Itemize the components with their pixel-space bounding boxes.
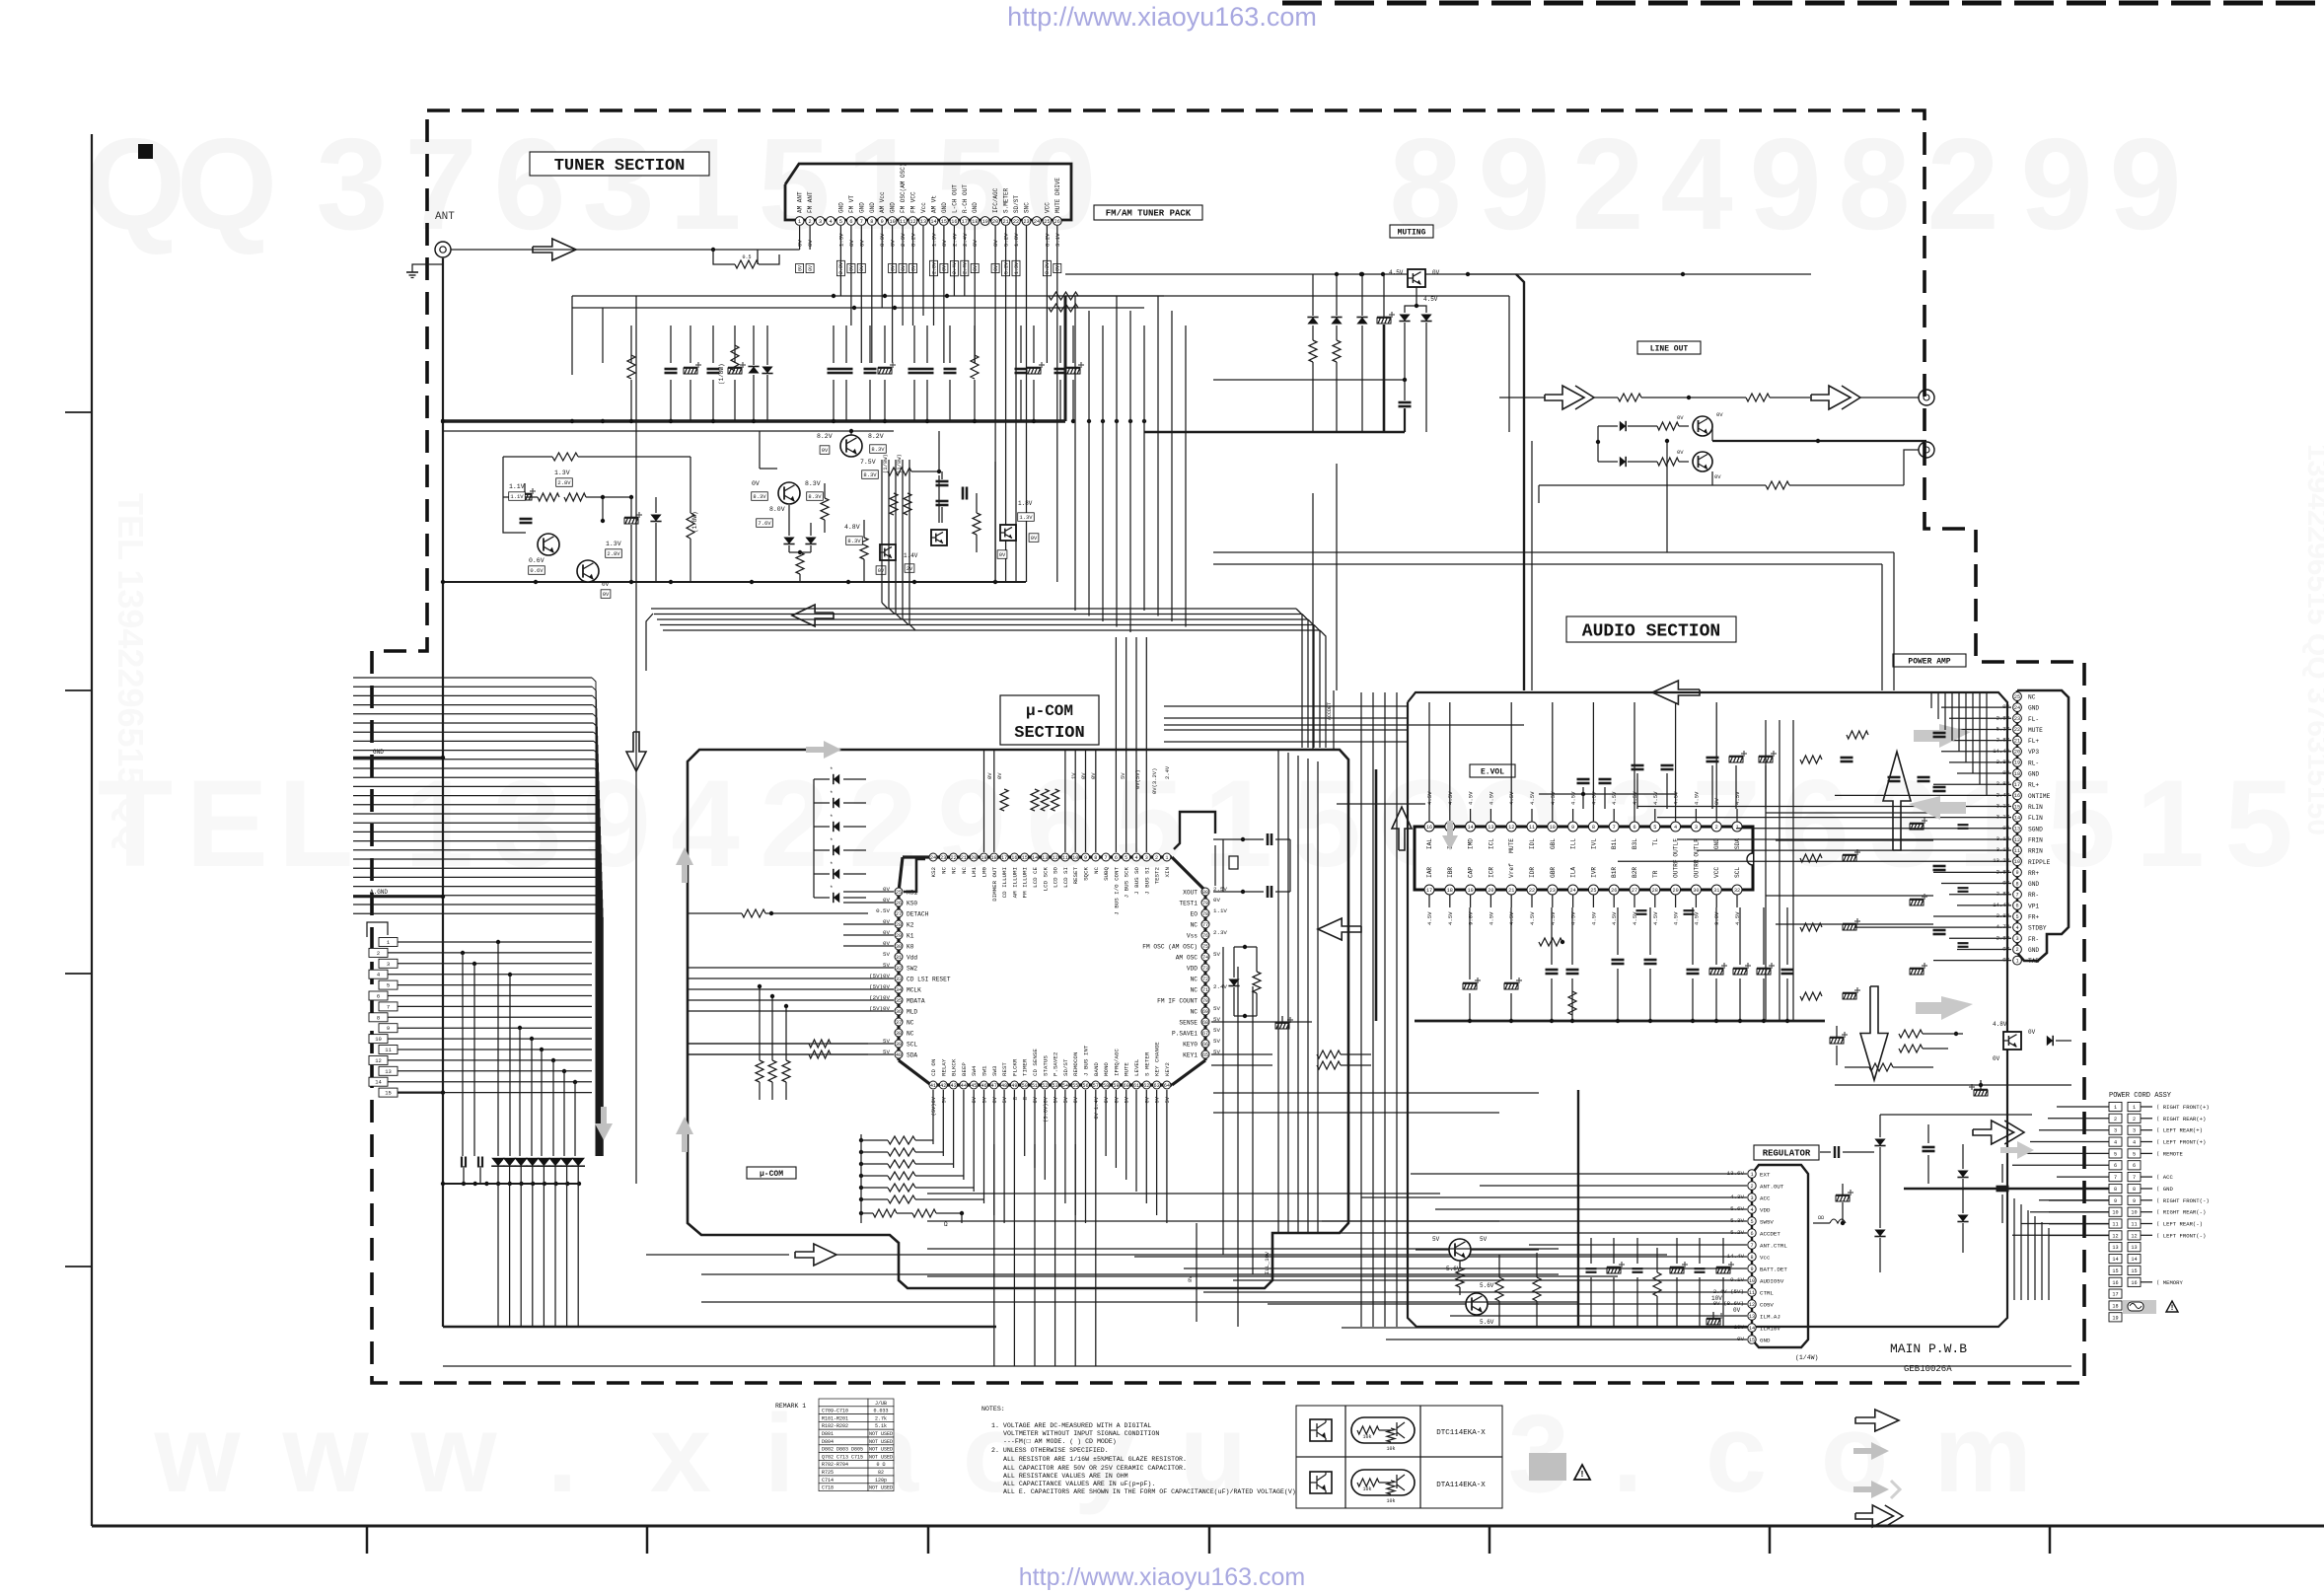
deep verticals ucom	[993, 1144, 995, 1366]
svg-text:10: 10	[1550, 825, 1556, 831]
arrow left evol	[1318, 918, 1361, 940]
svg-text:0V: 0V	[996, 772, 1003, 779]
svg-text:FRIN: FRIN	[2028, 837, 2043, 844]
svg-text:R725: R725	[822, 1470, 834, 1476]
svg-text:8: 8	[377, 1014, 380, 1021]
svg-text:ALL RESISTANCE VALUES ARE IN O: ALL RESISTANCE VALUES ARE IN OHM	[1003, 1473, 1128, 1480]
svg-text:FM IF COUNT: FM IF COUNT	[1157, 998, 1198, 1005]
svg-text:IAL: IAL	[1426, 838, 1433, 849]
svg-text:4.5V: 4.5V	[1529, 791, 1536, 805]
label u-COM SECTION	[1000, 695, 1099, 745]
connector drop wires	[496, 940, 500, 944]
gray arrow up x695b	[676, 1117, 693, 1152]
tuner-to-ucom vertical bundle	[1074, 296, 1076, 611]
label MUTING	[1390, 225, 1433, 238]
mid verticals extra	[1222, 947, 1224, 1255]
svg-text:10V: 10V	[1711, 1295, 1722, 1302]
svg-text:B1L: B1L	[1611, 838, 1618, 849]
diode muting 5	[1420, 315, 1431, 322]
svg-text:8: 8	[1094, 855, 1097, 861]
svg-text:RESET: RESET	[1072, 866, 1079, 884]
svg-text:(1/4W): (1/4W)	[1795, 1354, 1818, 1361]
svg-text:CD ON: CD ON	[930, 1058, 937, 1076]
wire bottom thin long	[443, 1365, 2071, 1367]
svg-text:5V: 5V	[1213, 1027, 1220, 1034]
svg-text:22: 22	[950, 855, 956, 861]
svg-text:24: 24	[2014, 705, 2020, 711]
digital transistor tuner 2	[931, 530, 947, 545]
gray arrow pc	[2000, 1141, 2034, 1159]
svg-text:2.8V: 2.8V	[607, 550, 620, 557]
svg-text:7: 7	[2114, 1175, 2117, 1181]
svg-text:NOT USED: NOT USED	[869, 1447, 893, 1453]
svg-text:5V: 5V	[982, 1096, 988, 1103]
svg-text:NOT USED: NOT USED	[869, 1454, 893, 1460]
gray arrow pa2	[1909, 796, 1966, 820]
svg-text:TUNER SECTION: TUNER SECTION	[554, 157, 686, 176]
fuse power cord	[2123, 1300, 2156, 1314]
svg-text:25: 25	[1044, 219, 1050, 225]
svg-text:VCC: VCC	[1713, 867, 1720, 878]
svg-text:0.6V: 0.6V	[529, 557, 545, 564]
caps power amp left2	[1933, 865, 1946, 868]
svg-text:0V: 0V	[859, 265, 865, 271]
svg-text:3: 3	[316, 111, 388, 256]
svg-text:P.SAVE2: P.SAVE2	[1053, 1051, 1059, 1076]
svg-text:7: 7	[860, 219, 863, 225]
svg-text:5.6V: 5.6V	[1480, 1282, 1494, 1289]
svg-text:BEEP: BEEP	[961, 1062, 968, 1076]
svg-text:13: 13	[1488, 825, 1493, 831]
svg-text:μ-COM: μ-COM	[1026, 702, 1073, 720]
svg-text:8: 8	[870, 219, 873, 225]
svg-text:1.1V: 1.1V	[509, 483, 525, 490]
svg-text:16: 16	[2014, 793, 2020, 799]
svg-text:VP1: VP1	[2028, 903, 2039, 909]
svg-text:REGULATOR: REGULATOR	[1763, 1149, 1811, 1159]
svg-text:28: 28	[896, 922, 902, 928]
svg-text:7.5V: 7.5V	[860, 459, 876, 466]
svg-text:0V: 0V	[1993, 1055, 2000, 1062]
svg-text:B2R: B2R	[1632, 867, 1638, 878]
svg-text:1.4V: 1.4V	[904, 552, 918, 559]
legend row1 equiv	[1351, 1417, 1415, 1443]
bus tuner ground thick	[441, 419, 1065, 422]
resistor stack bottom row	[859, 1211, 863, 1215]
svg-text:5V: 5V	[1125, 1096, 1130, 1103]
svg-text:15: 15	[1749, 1338, 1755, 1343]
svg-text:0V: 0V	[1714, 473, 1721, 480]
svg-text:15: 15	[2131, 1268, 2137, 1274]
svg-text:14: 14	[2131, 1257, 2137, 1263]
ic evol top pins	[1424, 822, 1434, 832]
long vertical x1340 set	[1277, 750, 1279, 1233]
svg-text:SW3: SW3	[991, 1065, 998, 1076]
svg-text:XIN: XIN	[1164, 866, 1171, 877]
svg-text:26: 26	[1611, 888, 1617, 894]
svg-text:REMARK 1: REMARK 1	[775, 1403, 806, 1410]
svg-text:RLIN: RLIN	[2028, 804, 2043, 811]
warning triangle power cord	[2166, 1301, 2178, 1312]
wire evol top h	[1539, 793, 1677, 795]
svg-text:12: 12	[2112, 1233, 2118, 1239]
svg-text:4: 4	[1750, 1207, 1753, 1213]
resistor muting 1	[1309, 340, 1317, 362]
audio block outline	[1408, 692, 2007, 1327]
wire antenna feed	[451, 249, 758, 251]
svg-text:FM/AM TUNER PACK: FM/AM TUNER PACK	[1106, 209, 1192, 219]
svg-text:NOTES:: NOTES:	[981, 1406, 1005, 1412]
svg-text:NC: NC	[951, 866, 958, 873]
svg-text:AUDIO5V: AUDIO5V	[1760, 1278, 1784, 1285]
svg-text:C709-C710: C709-C710	[822, 1409, 848, 1414]
svg-text:5: 5	[387, 982, 390, 989]
caps pair small evol	[1636, 909, 1647, 911]
svg-text:0V: 0V	[1055, 265, 1061, 271]
svg-text:19: 19	[982, 219, 988, 225]
svg-text:11: 11	[900, 219, 906, 225]
svg-text:1.3V: 1.3V	[1019, 514, 1033, 521]
bus lineout mid	[1712, 440, 1926, 442]
svg-text:FM ANT: FM ANT	[807, 191, 814, 213]
svg-text:5.1k: 5.1k	[875, 1423, 887, 1429]
svg-text:ANT: ANT	[435, 211, 455, 223]
cap reg right3	[1923, 1146, 1935, 1149]
svg-text:ICR: ICR	[1488, 867, 1494, 878]
ic evol pin stubs	[1428, 702, 1430, 822]
svg-text:9.0V: 9.0V	[1468, 911, 1475, 925]
page frame bottom tick 6	[1769, 1526, 1772, 1554]
wire ant stub	[713, 250, 735, 264]
svg-text:13: 13	[920, 219, 926, 225]
svg-text:10: 10	[2014, 859, 2020, 865]
svg-text:11: 11	[385, 1047, 392, 1053]
svg-text:5V: 5V	[1480, 1236, 1488, 1243]
svg-text:44: 44	[961, 1083, 967, 1089]
svg-text:LM1: LM1	[971, 866, 978, 877]
label E.VOL	[1470, 764, 1515, 777]
svg-text:(1/8W): (1/8W)	[882, 454, 889, 473]
svg-text:TEST1: TEST1	[1179, 901, 1198, 907]
svg-text:(1/8W): (1/8W)	[691, 511, 698, 533]
svg-text:NC: NC	[1191, 922, 1198, 929]
svg-text:RIPPLE: RIPPLE	[2028, 859, 2051, 866]
svg-text:NC: NC	[940, 866, 947, 873]
svg-text:14: 14	[1749, 1326, 1755, 1332]
svg-text:9.0V: 9.0V	[1713, 911, 1720, 925]
svg-text:IFRQ/AGC: IFRQ/AGC	[1113, 1049, 1120, 1076]
svg-text:0V 1.4V: 0V 1.4V	[1094, 1096, 1100, 1119]
svg-text:4.5V: 4.5V	[1652, 791, 1659, 805]
svg-text:MUTE: MUTE	[1508, 838, 1515, 853]
svg-text:NOT USED: NOT USED	[869, 1439, 893, 1445]
wires ucom bottom forest	[932, 1090, 934, 1144]
digital transistor tuner 3	[1000, 525, 1016, 541]
svg-text:76: 76	[1202, 933, 1208, 939]
svg-text:KS0: KS0	[907, 901, 917, 907]
verticals below diode bus	[497, 1184, 499, 1327]
svg-text:D804: D804	[822, 1439, 834, 1445]
svg-text:CD SENSE: CD SENSE	[1032, 1049, 1039, 1076]
svg-text:10: 10	[2131, 1210, 2137, 1216]
svg-text:FL-: FL-	[2028, 716, 2039, 723]
diode reg right2	[1874, 1230, 1885, 1237]
svg-text:17: 17	[1001, 855, 1007, 861]
svg-text:1.1V: 1.1V	[1213, 907, 1227, 914]
svg-text:FM VT: FM VT	[848, 195, 855, 213]
diode array bus	[443, 1183, 580, 1185]
svg-text:A.GND: A.GND	[370, 889, 388, 896]
svg-text:3: 3	[1750, 1195, 1753, 1201]
svg-text:⟨ GND: ⟨ GND	[2156, 1186, 2173, 1193]
svg-text:4.5V: 4.5V	[1423, 296, 1438, 303]
svg-text:R702-R704: R702-R704	[822, 1462, 848, 1468]
transistor Q-m1	[840, 435, 862, 457]
svg-text:23: 23	[1023, 219, 1029, 225]
svg-text:0V: 0V	[808, 265, 814, 271]
ic ucom outline	[903, 855, 1172, 858]
inductor reg	[1813, 1222, 1830, 1224]
svg-text:L-CH OUT: L-CH OUT	[951, 184, 958, 213]
svg-text:59: 59	[1113, 1083, 1119, 1089]
svg-text:73: 73	[1202, 966, 1208, 972]
svg-text:8.3V: 8.3V	[808, 493, 822, 500]
svg-text:1: 1	[798, 219, 801, 225]
svg-text:R-CH OUT: R-CH OUT	[962, 184, 969, 213]
resistor vert tm1	[860, 538, 868, 559]
svg-text:CAP: CAP	[1468, 867, 1475, 878]
wire connector 15 thick	[398, 1091, 443, 1093]
svg-text:ALL E. CAPACITORS ARE SHOWN IN: ALL E. CAPACITORS ARE SHOWN IN THE FORM …	[1003, 1488, 1296, 1495]
svg-text:3: 3	[493, 756, 562, 893]
svg-text:IVL: IVL	[1590, 838, 1597, 849]
svg-text:14: 14	[930, 219, 936, 225]
svg-text:OUTLR: OUTLR	[1693, 838, 1700, 857]
svg-text:⟨ LEFT REAR(+): ⟨ LEFT REAR(+)	[2156, 1127, 2203, 1134]
wire lineout L2	[1641, 397, 1746, 398]
svg-text:NC: NC	[2028, 694, 2036, 701]
svg-text:43: 43	[950, 1083, 956, 1089]
svg-text:2: 2	[1155, 855, 1158, 861]
svg-text:16: 16	[1011, 855, 1017, 861]
wire vertical x645	[635, 296, 637, 1184]
svg-text:20: 20	[971, 855, 977, 861]
bus evol left thick	[1375, 769, 1378, 1021]
svg-text:6: 6	[2114, 1163, 2117, 1169]
svg-text:9: 9	[2015, 870, 2018, 876]
node left bus 427	[441, 419, 445, 423]
resistor tuner mid2	[1049, 304, 1078, 312]
svg-text:18: 18	[2112, 1304, 2118, 1310]
wire pa net	[1835, 1084, 2071, 1086]
svg-text:2: 2	[1926, 111, 1998, 256]
svg-text:13: 13	[2131, 1245, 2137, 1251]
svg-text:5: 5	[935, 111, 1007, 256]
wire pin1 to ant line	[758, 249, 800, 251]
jack line out R	[1919, 442, 1934, 458]
wire lineout vert2	[1538, 485, 1540, 503]
svg-text:9: 9	[881, 219, 884, 225]
svg-text:11: 11	[1529, 825, 1535, 831]
ic ucom bottom pins	[929, 1081, 937, 1089]
wire tuner-muting mid	[1065, 295, 1509, 297]
wire muting mid	[1213, 379, 1405, 381]
svg-text:9: 9	[1571, 825, 1574, 831]
connector CN bracket	[367, 922, 388, 937]
staircase drop left group	[881, 460, 883, 603]
diode lineout 1	[1620, 421, 1626, 431]
page frame bottom tick 5	[1489, 1526, 1491, 1554]
page frame left vertical	[91, 134, 93, 1526]
diode lineout 2	[1620, 457, 1626, 467]
wire ucom ks thick	[904, 859, 925, 892]
svg-text:FL+: FL+	[2028, 738, 2039, 745]
svg-text:Q: Q	[85, 111, 186, 256]
svg-text:MONO: MONO	[1103, 1062, 1110, 1076]
svg-text:AM Vcc: AM Vcc	[879, 191, 886, 213]
svg-text:FLIN: FLIN	[2028, 815, 2043, 822]
svg-text:RR-: RR-	[2028, 892, 2039, 899]
svg-text:0V: 0V	[910, 265, 916, 271]
svg-text:POWER CORD ASSY: POWER CORD ASSY	[2109, 1092, 2172, 1100]
svg-text:KEY CHANGE: KEY CHANGE	[1154, 1042, 1161, 1076]
svg-text:7: 7	[2133, 1175, 2136, 1181]
wire muting drop	[1416, 287, 1417, 306]
svg-text:5V: 5V	[1002, 1096, 1008, 1103]
svg-text:⟨ REMOTE: ⟨ REMOTE	[2156, 1150, 2184, 1157]
svg-text:Vcc: Vcc	[920, 202, 927, 213]
svg-text:2: 2	[2133, 1117, 2136, 1122]
svg-text:ACCDET: ACCDET	[1327, 702, 1333, 720]
svg-text:29: 29	[896, 933, 902, 939]
resistor below evol v1	[1568, 991, 1576, 1015]
svg-text:23: 23	[1550, 888, 1556, 894]
svg-text:5: 5	[1292, 756, 1361, 893]
svg-text:1.3V: 1.3V	[1014, 262, 1020, 274]
svg-text:14: 14	[375, 1079, 382, 1086]
svg-text:3: 3	[2133, 1128, 2136, 1134]
svg-text:2: 2	[760, 756, 829, 893]
svg-text:17: 17	[1426, 888, 1432, 894]
svg-text:34: 34	[896, 987, 902, 993]
svg-text:TR: TR	[1652, 870, 1659, 878]
svg-text:IDL: IDL	[1529, 838, 1536, 849]
svg-text:TEL 13942296515 QQ: TEL 13942296515 QQ	[110, 493, 151, 852]
svg-text:0V: 0V	[986, 772, 993, 779]
svg-text:J BUS SO: J BUS SO	[1133, 866, 1140, 894]
resistor vert tm2	[973, 513, 980, 535]
svg-text:6: 6	[1633, 825, 1635, 831]
svg-text:6: 6	[849, 219, 852, 225]
svg-text:*: *	[830, 814, 834, 821]
svg-text:w: w	[409, 1392, 497, 1515]
svg-text:4.8V: 4.8V	[1993, 1021, 2007, 1028]
svg-text:0V: 0V	[1073, 1096, 1079, 1103]
svg-text:77: 77	[1202, 922, 1208, 928]
svg-text:32: 32	[896, 966, 902, 972]
svg-text:B1R: B1R	[1611, 867, 1618, 878]
svg-text:VOLTMETER WITHOUT INPUT SIGNAL: VOLTMETER WITHOUT INPUT SIGNAL CONDITION	[1003, 1430, 1159, 1437]
svg-text:(3.6V)0V: (3.6V)0V	[1043, 1096, 1049, 1122]
arrow tuner input	[533, 239, 576, 260]
svg-text:0V: 0V	[1716, 411, 1723, 418]
bottom mid horizontals	[927, 1193, 1440, 1195]
svg-text:NOT USED: NOT USED	[869, 1485, 893, 1491]
page frame top partial dashed	[1282, 1, 2324, 6]
svg-text:EO: EO	[1191, 911, 1198, 918]
svg-text:4: 4	[2133, 1140, 2136, 1146]
return bundle corner	[646, 614, 653, 671]
svg-text:25: 25	[1590, 888, 1596, 894]
transistor reg Q1	[1449, 1239, 1471, 1261]
svg-text:8: 8	[1750, 1255, 1753, 1261]
svg-text:7: 7	[1613, 825, 1616, 831]
svg-text:14: 14	[1467, 825, 1473, 831]
svg-text:http://www.xiaoyu163.com: http://www.xiaoyu163.com	[1007, 2, 1317, 32]
resistor below evol 1	[1539, 938, 1562, 946]
svg-text:67: 67	[1202, 1031, 1208, 1037]
transistor lineout Q1	[1693, 416, 1712, 436]
page frame left tick 1	[65, 411, 92, 413]
diode reg right1	[1874, 1139, 1885, 1146]
svg-text:0V: 0V	[942, 265, 948, 271]
caps XIN XOUT	[1267, 833, 1270, 845]
svg-text:MLD: MLD	[907, 1009, 917, 1016]
svg-text:TL: TL	[1652, 838, 1659, 846]
svg-text:11: 11	[1062, 855, 1068, 861]
svg-text:29: 29	[1672, 888, 1678, 894]
arrow return bundle	[792, 605, 834, 626]
svg-text:12: 12	[1052, 855, 1057, 861]
long vertical x1380 set	[1360, 692, 1362, 1327]
svg-text:28: 28	[1652, 888, 1658, 894]
diode array ucom left	[834, 774, 839, 784]
capacitor ecap c-l1	[518, 494, 532, 500]
svg-text:5V: 5V	[1213, 1005, 1220, 1012]
svg-text:⟨ RIGHT FRONT(+): ⟨ RIGHT FRONT(+)	[2156, 1104, 2210, 1111]
audio mid components	[1800, 756, 1822, 763]
svg-text:52: 52	[1042, 1083, 1048, 1089]
svg-text:IBR: IBR	[1447, 867, 1454, 878]
svg-text:E: E	[185, 756, 267, 893]
svg-text:1: 1	[2133, 1105, 2136, 1111]
wire q1	[1711, 426, 1713, 441]
svg-text:39: 39	[896, 1042, 902, 1048]
svg-text:K0: K0	[907, 944, 914, 951]
svg-text:(1/8W): (1/8W)	[718, 363, 725, 385]
svg-text:E.VOL: E.VOL	[1481, 767, 1504, 776]
svg-text:MUTE: MUTE	[2028, 727, 2043, 734]
svg-text:12: 12	[2131, 1233, 2137, 1239]
svg-text:3: 3	[2015, 936, 2018, 942]
wire audio top join b	[1213, 563, 1882, 565]
svg-text:13: 13	[1042, 855, 1048, 861]
svg-text:1: 1	[2136, 756, 2205, 893]
svg-text:GND: GND	[2028, 947, 2039, 954]
gray arrow blob top	[806, 741, 841, 759]
svg-text:4.5V: 4.5V	[1590, 911, 1597, 925]
svg-text:4.5V: 4.5V	[1447, 911, 1454, 925]
svg-text:4: 4	[829, 219, 832, 225]
label AUDIO SECTION	[1566, 616, 1736, 642]
svg-text:IMD: IMD	[1468, 838, 1475, 849]
legend row1 symbol	[1310, 1419, 1332, 1441]
svg-text:0V: 0V	[1144, 1096, 1150, 1103]
svg-text:75: 75	[1202, 944, 1208, 950]
svg-text:Q702 C713 C715: Q702 C713 C715	[822, 1454, 863, 1460]
diode array ucom wires	[813, 779, 815, 898]
svg-text:49: 49	[1011, 1083, 1017, 1089]
